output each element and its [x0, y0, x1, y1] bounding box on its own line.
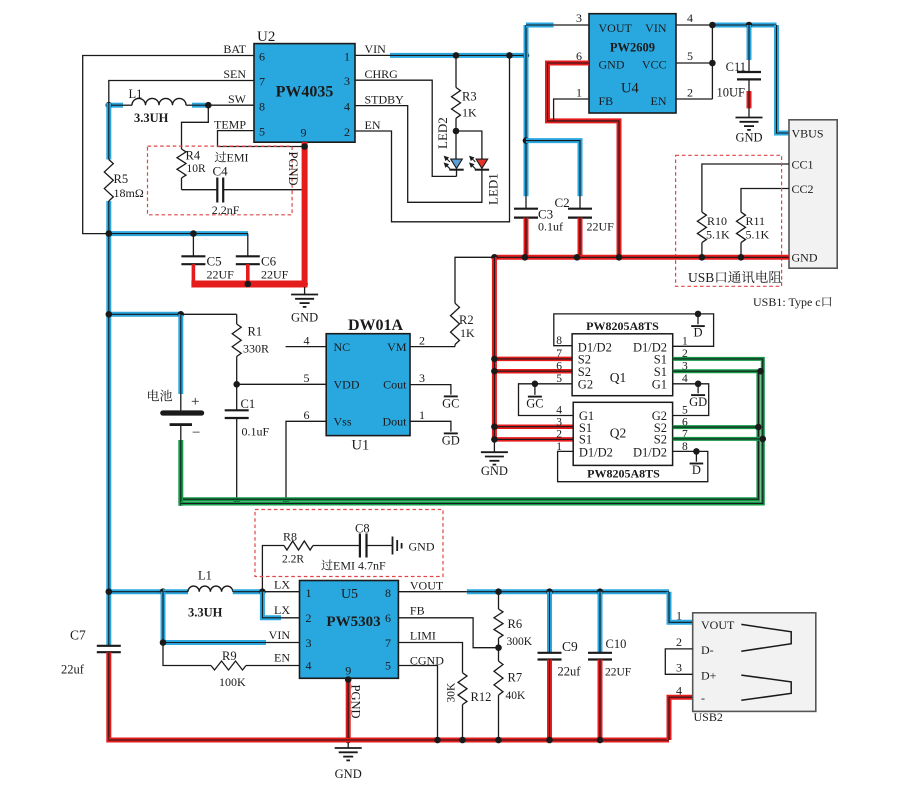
- USB prong icon top: [741, 624, 791, 651]
- svg-text:2: 2: [687, 86, 693, 100]
- transistor Q1 PW8205A8TS outer box: [554, 314, 714, 346]
- svg-text:C4: C4: [213, 164, 229, 179]
- capacitor C1 0.1uF: [236, 384, 238, 410]
- svg-text:9: 9: [345, 664, 351, 678]
- svg-text:GD: GD: [442, 434, 460, 448]
- svg-text:USB2: USB2: [694, 710, 723, 724]
- svg-text:VIN: VIN: [365, 42, 387, 56]
- svg-text:USB: USB: [688, 270, 714, 285]
- wire blue rail C5/C6 branch: [109, 231, 248, 236]
- transistor Q1 pin box: [572, 334, 673, 396]
- wire red S2 taps to Q1: [494, 357, 572, 362]
- svg-text:10R: 10R: [187, 163, 207, 175]
- svg-text:EN: EN: [274, 651, 290, 665]
- svg-text:C10: C10: [606, 637, 627, 651]
- svg-text:2: 2: [556, 428, 562, 440]
- svg-text:D+: D+: [701, 669, 717, 683]
- svg-text:C9: C9: [562, 639, 578, 654]
- capacitor C3 0.1uf: [525, 196, 527, 209]
- terminal GC from Cout: [410, 385, 451, 395]
- resistor R9 100K: [211, 661, 246, 670]
- wire blue to U4.VOUT: [526, 23, 554, 28]
- svg-text:VDD: VDD: [334, 378, 360, 392]
- wire U4.FB to ground: [554, 99, 589, 121]
- IC U2 PW4035 body: [254, 44, 355, 143]
- node SW junction: [205, 102, 212, 109]
- svg-text:EMI: EMI: [227, 151, 249, 165]
- svg-text:FB: FB: [410, 604, 425, 618]
- capacitor C4 2.2nF: [216, 178, 218, 203]
- wire battery negative green: [178, 440, 183, 506]
- wire CC2 to R11: [741, 189, 789, 213]
- IC U4 PW2609 body: [589, 14, 676, 113]
- svg-text:18mΩ: 18mΩ: [114, 186, 144, 200]
- wire D- D+ short: [665, 649, 692, 674]
- svg-text:CC1: CC1: [792, 157, 814, 171]
- svg-text:PW5303: PW5303: [326, 614, 380, 630]
- EMI dashed box bottom: [255, 510, 443, 577]
- svg-text:PW8205A8TS: PW8205A8TS: [586, 319, 659, 333]
- ground symbol below red branch: [493, 439, 495, 452]
- svg-text:2: 2: [306, 611, 312, 625]
- wire LIMI to R12: [398, 643, 462, 673]
- svg-text:R8: R8: [283, 530, 297, 544]
- svg-text:300K: 300K: [507, 636, 533, 648]
- svg-text:VOUT: VOUT: [701, 618, 735, 632]
- svg-text:4: 4: [687, 11, 693, 25]
- resistor R1 330R: [236, 314, 238, 324]
- label USB1 Type c: [753, 295, 831, 309]
- svg-text:Vss: Vss: [334, 415, 352, 429]
- svg-text:6: 6: [385, 611, 391, 625]
- svg-text:C1: C1: [241, 397, 256, 411]
- IC U5 PW5303 body: [300, 581, 399, 679]
- svg-text:R12: R12: [471, 690, 492, 704]
- svg-text:U4: U4: [621, 81, 639, 97]
- svg-text:EN: EN: [365, 118, 381, 132]
- svg-text:R7: R7: [508, 671, 523, 685]
- capacitor C10 22UF: [598, 592, 603, 653]
- svg-text:+: +: [191, 394, 199, 410]
- svg-text:3: 3: [344, 74, 350, 88]
- svg-text:VIN: VIN: [269, 628, 291, 642]
- svg-text:VCC: VCC: [642, 58, 667, 72]
- svg-text:STDBY: STDBY: [365, 93, 405, 107]
- ground symbol below power bar: [304, 287, 306, 295]
- wire green S1 net outer: [181, 359, 763, 504]
- terminal D on Q2 drain: [693, 448, 700, 455]
- svg-text:1: 1: [676, 609, 682, 623]
- svg-text:R2: R2: [459, 313, 474, 327]
- wire EN pullup to VIN: [355, 55, 510, 221]
- svg-text:9: 9: [301, 126, 307, 140]
- svg-text:3.3UH: 3.3UH: [134, 111, 169, 125]
- svg-text:5: 5: [304, 371, 310, 385]
- svg-text:7: 7: [385, 636, 391, 650]
- svg-text:C2: C2: [555, 195, 570, 210]
- svg-text:6: 6: [304, 408, 310, 422]
- wire VIN net blue top: [355, 54, 390, 56]
- node L1 left junction: [106, 102, 113, 109]
- svg-text:40K: 40K: [506, 690, 527, 702]
- svg-text:Cout: Cout: [383, 378, 407, 392]
- svg-text:VM: VM: [387, 340, 407, 354]
- inductor L1 (3.3UH) bottom: [163, 589, 188, 594]
- svg-text:5: 5: [687, 49, 693, 63]
- wire SW stub to U2.SW: [208, 104, 254, 106]
- svg-text:PW2609: PW2609: [610, 41, 655, 55]
- svg-text:4: 4: [682, 373, 688, 385]
- wire CC1 to R10: [702, 164, 789, 212]
- terminal GD from Dout: [410, 421, 451, 431]
- svg-text:R1: R1: [248, 325, 263, 339]
- svg-text:R9: R9: [222, 649, 237, 663]
- wire U5 PGND red: [346, 678, 351, 740]
- label guo-EMI 4.7nF: [321, 559, 386, 573]
- wire VOUT blue rail: [467, 589, 669, 594]
- LED1 red led: [476, 159, 488, 168]
- svg-text:1: 1: [344, 49, 350, 63]
- capacitor C8 4.7nF: [359, 534, 361, 558]
- svg-text:2.2R: 2.2R: [282, 554, 304, 566]
- svg-text:1: 1: [682, 335, 688, 347]
- svg-text:C7: C7: [70, 628, 86, 643]
- svg-text:-: -: [701, 691, 705, 705]
- svg-text:GND: GND: [599, 58, 625, 72]
- svg-text:R6: R6: [508, 617, 523, 631]
- side ground symbol: [392, 537, 394, 555]
- wire SW snubber branch to R4: [182, 105, 209, 149]
- resistor R10 5.1K: [697, 212, 706, 243]
- svg-text:DW01A: DW01A: [348, 317, 404, 334]
- resistor R12 30K: [458, 673, 467, 705]
- svg-text:4: 4: [556, 405, 562, 417]
- svg-text:1K: 1K: [460, 326, 475, 340]
- wire blue battery rail vertical (upper): [106, 103, 111, 160]
- svg-text:1: 1: [306, 586, 312, 600]
- svg-text:3: 3: [676, 660, 682, 674]
- svg-text:TEMP: TEMP: [214, 117, 246, 131]
- wire GD gate bracket right: [673, 384, 709, 416]
- svg-text:8: 8: [556, 335, 562, 347]
- svg-text:USB1: Type c: USB1: Type c: [753, 295, 821, 309]
- wire to R1: [181, 313, 237, 315]
- svg-text:4: 4: [344, 99, 350, 113]
- capacitor C6 22UF: [247, 234, 249, 257]
- svg-text:C8: C8: [355, 522, 370, 536]
- svg-text:GND: GND: [735, 131, 762, 145]
- svg-text:5: 5: [556, 373, 562, 385]
- svg-text:PW4035: PW4035: [276, 84, 334, 101]
- svg-text:2: 2: [676, 635, 682, 649]
- wire main ground bus red: [494, 255, 789, 260]
- svg-text:U1: U1: [352, 438, 370, 454]
- svg-text:5.1K: 5.1K: [706, 228, 730, 242]
- svg-text:LED1: LED1: [486, 173, 501, 205]
- wire U4.VIN to VBUS: [676, 24, 712, 26]
- battery cell: [148, 390, 172, 402]
- svg-text:30K: 30K: [446, 682, 458, 703]
- resistor R2 1K: [410, 346, 455, 348]
- svg-text:GND: GND: [409, 540, 435, 554]
- svg-text:GND: GND: [481, 464, 508, 478]
- wire LED anode branch: [456, 131, 482, 159]
- transistor Q2 pin box: [573, 402, 672, 465]
- resistor R7 40K: [498, 648, 500, 661]
- svg-text:1K: 1K: [462, 106, 477, 120]
- capacitor C5 22UF: [192, 234, 194, 257]
- svg-text:L1: L1: [129, 87, 143, 101]
- svg-text:22uf: 22uf: [558, 665, 582, 679]
- svg-text:EN: EN: [651, 94, 667, 108]
- resistor R11 5.1K: [737, 212, 746, 243]
- svg-text:8: 8: [259, 99, 265, 113]
- wire green Q2 S2 taps: [673, 425, 759, 429]
- svg-text:LX: LX: [274, 578, 290, 592]
- wire green S1 net inner: [183, 371, 758, 499]
- svg-text:2: 2: [419, 334, 425, 348]
- svg-text:D-: D-: [701, 643, 714, 657]
- wire bottom ground bus red: [109, 738, 669, 743]
- svg-text:GND: GND: [335, 767, 362, 781]
- svg-text:CHRG: CHRG: [365, 67, 399, 81]
- svg-text:L1: L1: [198, 569, 212, 583]
- connector USB1 Type-C body: [789, 120, 837, 268]
- svg-text:−: −: [192, 425, 200, 441]
- resistor R4 10R: [177, 149, 186, 178]
- svg-text:VIN: VIN: [645, 21, 667, 35]
- svg-text:R5: R5: [114, 172, 129, 186]
- capacitor C11 10UF: [747, 25, 752, 60]
- wire C8 to side ground: [367, 545, 393, 547]
- svg-text:LX: LX: [274, 603, 290, 617]
- svg-text:3: 3: [556, 417, 562, 429]
- svg-text:Q2: Q2: [610, 426, 627, 441]
- svg-text:GND: GND: [792, 250, 818, 264]
- svg-text:22UF: 22UF: [587, 220, 615, 234]
- svg-text:SW: SW: [228, 92, 247, 106]
- svg-text:22UF: 22UF: [207, 268, 235, 282]
- svg-text:22uf: 22uf: [61, 663, 85, 677]
- svg-text:R11: R11: [746, 214, 766, 228]
- svg-text:C6: C6: [261, 254, 277, 269]
- svg-text:G2: G2: [578, 378, 593, 392]
- wire blue C2 branch: [526, 141, 580, 197]
- svg-text:GD: GD: [689, 395, 707, 409]
- terminal GC: [534, 384, 536, 395]
- connector USB2 body: [693, 613, 816, 712]
- svg-text:EMI 4.7nF: EMI 4.7nF: [333, 559, 386, 573]
- pin NC stub: [286, 346, 327, 348]
- svg-text:7: 7: [259, 74, 265, 88]
- capacitor C9 22uf: [547, 592, 552, 653]
- svg-text:BAT: BAT: [223, 42, 246, 56]
- svg-text:6: 6: [556, 360, 562, 372]
- svg-text:SEN: SEN: [223, 67, 246, 81]
- svg-text:3: 3: [576, 11, 582, 25]
- svg-text:LED2: LED2: [435, 117, 450, 149]
- wire BAT net (U2.BAT to battery+ bus): [83, 56, 254, 234]
- wire VCC EN tie: [711, 25, 713, 99]
- svg-text:22UF: 22UF: [605, 667, 631, 679]
- svg-text:PW8205A8TS: PW8205A8TS: [587, 467, 660, 481]
- svg-text:5: 5: [259, 125, 265, 139]
- svg-text:VOUT: VOUT: [599, 21, 633, 35]
- svg-text:Q1: Q1: [610, 370, 627, 385]
- svg-text:VBUS: VBUS: [792, 127, 824, 141]
- svg-text:Dout: Dout: [383, 415, 408, 429]
- svg-text:R3: R3: [462, 90, 477, 104]
- svg-text:8: 8: [385, 586, 391, 600]
- svg-text:U2: U2: [257, 29, 275, 45]
- wire FB to divider: [398, 618, 498, 648]
- EMI snubber dashed box: [148, 146, 293, 215]
- svg-text:2: 2: [344, 125, 350, 139]
- resistor R6 300K: [498, 592, 500, 609]
- wire SEN net: [109, 81, 254, 106]
- wire PGND red vertical from U2 pin 9: [302, 142, 308, 284]
- dashed box USB CC resistors: [676, 155, 782, 286]
- ground symbol below C11: [736, 117, 763, 119]
- wire LX2 branch: [262, 592, 281, 618]
- wire blue rail bottom branch: [109, 589, 163, 594]
- svg-text:330R: 330R: [243, 342, 269, 356]
- svg-text:100K: 100K: [219, 675, 246, 689]
- wire Vss to green bus: [286, 421, 326, 500]
- svg-text:R4: R4: [186, 149, 201, 163]
- terminal GD: [697, 384, 699, 394]
- wire VIN blue vertical to C3: [524, 25, 529, 196]
- USB prong icon bottom: [741, 675, 791, 700]
- svg-text:NC: NC: [334, 340, 351, 354]
- svg-text:C5: C5: [207, 254, 222, 269]
- svg-text:0.1uf: 0.1uf: [538, 220, 563, 234]
- svg-text:5: 5: [385, 659, 391, 673]
- inductor L1 (3.3UH) top: [109, 103, 123, 108]
- svg-text:0.1uF: 0.1uF: [242, 425, 270, 439]
- svg-text:PGND: PGND: [286, 152, 300, 186]
- svg-text:FB: FB: [599, 94, 614, 108]
- capacitor C2 22UF: [579, 196, 581, 209]
- ground symbol below U5: [347, 740, 349, 748]
- svg-text:4: 4: [306, 659, 312, 673]
- svg-text:1: 1: [419, 408, 425, 422]
- resistor R5 18mOhm: [104, 160, 113, 202]
- wire TEMP to PGND: [218, 131, 305, 147]
- wire red S1 taps to Q2: [494, 424, 573, 429]
- svg-text:4: 4: [304, 334, 310, 348]
- svg-text:5.1K: 5.1K: [746, 228, 770, 242]
- resistor R3 1K: [455, 55, 457, 87]
- wire LX1 stub: [262, 591, 299, 593]
- svg-text:VOUT: VOUT: [410, 579, 444, 593]
- svg-text:CC2: CC2: [792, 182, 814, 196]
- svg-text:10UF: 10UF: [717, 86, 746, 100]
- svg-text:LIMI: LIMI: [410, 629, 436, 643]
- svg-text:GC: GC: [526, 397, 543, 411]
- wire red branch to MOSFET sources: [492, 257, 497, 439]
- svg-text:3: 3: [306, 636, 312, 650]
- svg-text:22UF: 22UF: [261, 268, 289, 282]
- wire VOUT stub: [398, 591, 466, 593]
- wire CGND to ground bus: [398, 666, 437, 741]
- svg-text:1: 1: [576, 86, 582, 100]
- svg-text:5: 5: [682, 405, 688, 417]
- svg-text:6: 6: [259, 50, 265, 64]
- wire GC gate bracket left: [519, 384, 574, 416]
- wire VDD: [237, 383, 327, 385]
- wire red to USB2 minus: [669, 697, 693, 740]
- svg-text:U5: U5: [341, 587, 358, 602]
- svg-text:3: 3: [419, 371, 425, 385]
- svg-text:G1: G1: [652, 378, 667, 392]
- wire R8 to C8: [313, 545, 360, 547]
- svg-text:D1/D2: D1/D2: [633, 445, 667, 459]
- svg-text:R10: R10: [707, 214, 727, 228]
- svg-text:D: D: [693, 326, 702, 340]
- wire EN branch: [163, 643, 211, 666]
- svg-text:7: 7: [556, 348, 562, 360]
- snubber branch R8 C8: [262, 546, 284, 592]
- LED2 blue led: [451, 159, 463, 168]
- wire VIN branch: [163, 592, 266, 643]
- svg-text:GND: GND: [291, 311, 318, 325]
- svg-text:C11: C11: [726, 60, 746, 74]
- transistor Q2 outer box: [558, 451, 708, 481]
- wire U4.GND red to ground bus: [548, 63, 620, 256]
- wire R4 to C4: [182, 189, 218, 191]
- svg-text:D: D: [692, 463, 701, 477]
- wire blue battery rail vertical (below R5): [106, 201, 111, 646]
- label USB CC resistors: [688, 270, 781, 285]
- resistor R8 2.2R: [284, 541, 313, 550]
- svg-text:GC: GC: [442, 397, 459, 411]
- svg-text:D1/D2: D1/D2: [579, 445, 613, 459]
- power ground bar under C5 C6: [191, 281, 307, 288]
- wire CHRG to LED2: [355, 80, 457, 176]
- capacitor C7 22uf: [97, 645, 121, 647]
- label guo-EMI top: [215, 151, 249, 165]
- svg-text:4: 4: [676, 684, 682, 698]
- wire battery positive branch: [109, 312, 181, 317]
- wire C4 to PGND: [223, 189, 302, 191]
- terminal D on Q1 drain: [695, 311, 702, 318]
- wire STDBY to LED1: [355, 106, 482, 203]
- svg-text:3.3UH: 3.3UH: [188, 606, 223, 620]
